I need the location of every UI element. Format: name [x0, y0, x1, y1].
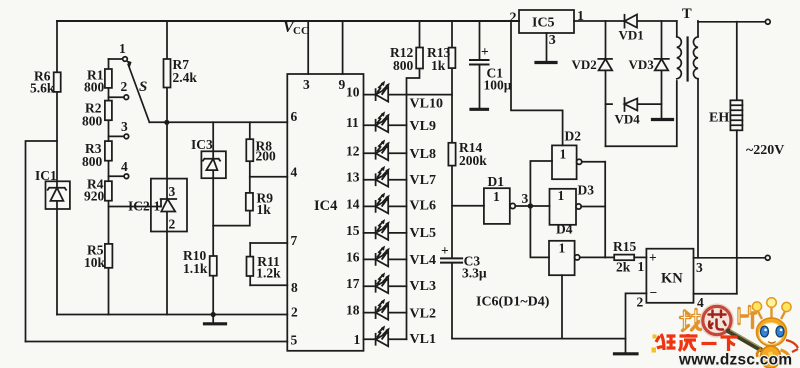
node junction dot ground pin2 [211, 312, 216, 317]
wire R12 column [407, 21, 420, 95]
ground IC5 [536, 61, 556, 64]
svg-text:T: T [682, 6, 692, 22]
svg-text:VL5: VL5 [410, 226, 436, 241]
svg-text:VL2: VL2 [410, 306, 436, 321]
svg-text:4: 4 [697, 295, 704, 310]
gate D2 [552, 129, 605, 180]
wire IC3/R10 column x213.2 [212, 122, 214, 314]
resistor R15 [614, 255, 634, 261]
svg-text:IC5: IC5 [532, 16, 555, 31]
glyph pian [739, 307, 756, 328]
resistor R4 [105, 181, 112, 201]
svg-text:1k: 1k [431, 58, 446, 73]
stamp circle xin [703, 306, 731, 334]
svg-text:10: 10 [346, 85, 360, 100]
resistor R6 [54, 72, 61, 92]
svg-text:VL7: VL7 [410, 173, 436, 188]
svg-text:3.3µ: 3.3µ [462, 266, 487, 281]
wire IC4 pin3 top lead [307, 21, 309, 74]
svg-text:1k: 1k [257, 202, 272, 217]
node Vcc label [283, 19, 309, 37]
red text weikuyixia [656, 334, 738, 351]
svg-text:+: + [441, 243, 449, 258]
switch S position 2 contact [109, 96, 125, 98]
svg-text:2: 2 [291, 305, 298, 320]
capacitor C1 [479, 21, 481, 108]
wire VD3 column [661, 21, 663, 104]
svg-text:www.dzsc.com: www.dzsc.com [678, 352, 792, 368]
svg-text:D1: D1 [488, 174, 505, 189]
ground VD4 [661, 104, 663, 118]
ground at pin2 line [212, 315, 214, 323]
svg-text:13: 13 [346, 170, 360, 185]
wire IC4 pin8 line [250, 284, 287, 286]
gate D3 [550, 183, 606, 225]
svg-text:10k: 10k [84, 255, 106, 270]
switch S position 3 contact [109, 135, 125, 137]
wire gate input bus [530, 161, 552, 257]
svg-text:1: 1 [638, 259, 645, 274]
svg-text:3: 3 [549, 33, 556, 48]
svg-text:VD4: VD4 [615, 112, 641, 127]
svg-text:VL1: VL1 [410, 332, 436, 347]
svg-text:11: 11 [346, 115, 359, 130]
svg-text:4: 4 [121, 159, 128, 174]
svg-text:5: 5 [291, 333, 298, 348]
svg-text:1: 1 [493, 189, 500, 204]
wire IC5 pin3 lead [546, 33, 548, 61]
diode VD2 [598, 58, 612, 60]
wire R13/R14/C3 column [451, 21, 453, 339]
svg-text:KN: KN [661, 271, 683, 287]
svg-text:2: 2 [121, 79, 128, 94]
resistor R2 [105, 101, 112, 121]
switch S common stub [109, 58, 123, 60]
svg-text:~220V: ~220V [746, 143, 784, 158]
wire bottom ground line [452, 338, 626, 340]
wire VD4 row [606, 103, 662, 105]
LED VL2 [364, 299, 436, 322]
resistor R10 [210, 256, 217, 276]
svg-text:920: 920 [84, 189, 105, 204]
resistor R9 [246, 193, 253, 211]
LED VL10 [364, 81, 443, 112]
resistor R3 [105, 141, 112, 161]
svg-text:800: 800 [82, 154, 103, 169]
glyph zhao [681, 310, 701, 331]
svg-text:1: 1 [559, 241, 566, 256]
svg-text:17: 17 [346, 276, 360, 291]
wire KN pin2 to ground [626, 293, 647, 352]
wire D4 bottom lead [561, 275, 563, 338]
svg-text:16: 16 [346, 249, 360, 264]
svg-text:6: 6 [291, 109, 298, 124]
svg-text:1: 1 [354, 332, 361, 347]
wire left outer frame to pin5 [26, 141, 58, 342]
LED VL9 [364, 111, 436, 134]
wire EH bottom lead [736, 130, 738, 293]
svg-text:VL8: VL8 [410, 147, 436, 162]
diode VD1 [624, 15, 626, 28]
svg-text:VD3: VD3 [629, 57, 655, 72]
svg-text:200: 200 [256, 149, 277, 164]
magnifier handle [729, 331, 761, 350]
regulator IC2 [151, 179, 187, 232]
regulator IC5 [519, 10, 574, 33]
svg-text:D3: D3 [578, 183, 595, 198]
svg-text:IC1: IC1 [35, 168, 57, 183]
svg-text:2: 2 [637, 295, 644, 310]
diode VD4 [624, 98, 626, 111]
zener IC1 [46, 181, 70, 209]
wire R8/R9 column x249.8 [213, 122, 250, 225]
svg-text:+: + [649, 250, 657, 265]
svg-text:1: 1 [560, 147, 567, 162]
resistor R1 [105, 69, 112, 88]
resistor R12 [416, 48, 423, 69]
svg-text:S: S [139, 79, 147, 95]
wire top Vcc rail [57, 20, 519, 22]
ground C1 [471, 108, 488, 111]
wire Vcc feed to gate D2 top [511, 21, 563, 145]
svg-text:VL10: VL10 [410, 97, 443, 112]
svg-text:18: 18 [346, 303, 360, 318]
watermark logo group [652, 298, 799, 368]
wire D1 input [452, 205, 484, 207]
wire secondary top to terminal [698, 21, 765, 23]
LED VL5 [364, 219, 436, 241]
ground bottom [615, 352, 638, 355]
svg-text:1: 1 [154, 199, 161, 214]
LED VL3 [364, 272, 436, 294]
mascot [752, 298, 798, 368]
svg-text:VL4: VL4 [410, 253, 436, 268]
svg-text:8: 8 [291, 280, 298, 295]
op-amp IC4 box [287, 74, 363, 351]
wire bridge bottom to transformer primary [606, 81, 677, 146]
resistor R11 [247, 257, 254, 276]
svg-text:15: 15 [346, 223, 360, 238]
svg-text:IC3: IC3 [191, 137, 213, 152]
heater EH [730, 100, 742, 130]
svg-text:800: 800 [393, 58, 414, 73]
wire EH top lead [736, 22, 738, 101]
node IC6 label [476, 295, 550, 310]
svg-text:3: 3 [303, 77, 310, 92]
gate D4 [549, 222, 605, 276]
switch S blade [128, 65, 149, 123]
wire left column x57 [56, 21, 58, 315]
svg-text:9: 9 [339, 77, 346, 92]
svg-text:12: 12 [346, 143, 360, 158]
wire KN pin3 line to terminal [694, 257, 766, 259]
svg-text:1.1k: 1.1k [183, 261, 208, 276]
resistor R14 [448, 143, 455, 166]
switch S position 1 contact [123, 57, 128, 62]
wire R15 to KN pin1 [634, 256, 646, 258]
svg-text:2.4k: 2.4k [173, 70, 198, 85]
relay KN [646, 249, 693, 303]
resistor R5 [105, 244, 113, 268]
svg-text:+: + [481, 44, 489, 59]
svg-text:800: 800 [82, 114, 103, 129]
svg-text:3: 3 [169, 184, 176, 199]
wire R11 left leads [249, 243, 251, 285]
svg-text:3: 3 [522, 191, 529, 206]
wire R7/IC2 column x167 [166, 21, 168, 315]
terminal top right [765, 19, 770, 24]
svg-text:1: 1 [558, 188, 565, 203]
wire VL10 node line [407, 94, 453, 96]
svg-text:VL6: VL6 [410, 199, 436, 214]
svg-text:1: 1 [119, 41, 126, 56]
wire KN pin4 line [694, 293, 737, 295]
svg-text:IC6(D1~D4): IC6(D1~D4) [476, 295, 550, 310]
node ~220V label [746, 143, 784, 158]
wire LED anode bus [406, 95, 408, 340]
capacitor C3 [441, 258, 462, 262]
svg-text:CC: CC [293, 25, 309, 37]
LED VL7 [364, 166, 436, 188]
resistor R8 [246, 139, 253, 161]
transformer T [677, 6, 698, 258]
svg-text:VD1: VD1 [619, 28, 644, 43]
svg-text:3: 3 [121, 119, 128, 134]
svg-text:800: 800 [84, 80, 105, 95]
diode VD3 [655, 58, 669, 60]
wire D2/D3 output join [604, 162, 606, 258]
svg-text:1.2k: 1.2k [256, 266, 281, 281]
switch S position 4 contact [109, 175, 125, 177]
svg-text:D2: D2 [565, 129, 582, 144]
svg-text:IC4: IC4 [314, 198, 337, 214]
svg-text:IC2: IC2 [128, 199, 150, 214]
resistor R13 [449, 48, 456, 69]
wire IC4 pin9 top lead [342, 21, 344, 74]
wire IC4 pin5 line [26, 341, 288, 343]
svg-text:−: − [650, 285, 658, 300]
LED VL6 [364, 193, 436, 214]
svg-text:2: 2 [169, 217, 176, 232]
node 3 junction [528, 203, 533, 208]
wire IC5 pin1 output line [574, 20, 677, 22]
node junction dot R7/IC2/pin6 [164, 120, 169, 125]
wire IC4 pin6 line [149, 121, 287, 123]
gate D1 [484, 174, 528, 224]
LED VL8 [364, 140, 436, 163]
zener IC3 [201, 151, 226, 178]
svg-text:200k: 200k [459, 153, 487, 168]
svg-text:VD2: VD2 [572, 57, 597, 72]
svg-text:D4: D4 [556, 222, 573, 237]
svg-text:100µ: 100µ [484, 78, 512, 93]
svg-text:5.6k: 5.6k [30, 81, 55, 96]
terminal right [765, 255, 770, 260]
wire IC4 pin7 line [250, 242, 287, 244]
wire IC4 pin4 line [250, 176, 287, 178]
LED VL1 [364, 326, 436, 348]
wire IC4 pin2 line [57, 314, 287, 316]
svg-text:EH: EH [709, 111, 729, 126]
wire bridge left column [605, 21, 607, 146]
LED VL4 [364, 246, 436, 268]
svg-text:14: 14 [346, 196, 360, 211]
svg-text:4: 4 [291, 165, 298, 180]
svg-text:3: 3 [696, 260, 703, 275]
wire D4 output to R15 [605, 256, 614, 258]
svg-text:VL3: VL3 [410, 279, 436, 294]
wire resistor chain column x108.5 [108, 59, 110, 315]
resistor R7 [164, 59, 171, 88]
svg-text:R15: R15 [613, 239, 636, 254]
svg-text:7: 7 [291, 233, 298, 248]
svg-text:2k: 2k [616, 260, 631, 275]
svg-text:VL9: VL9 [410, 119, 436, 134]
